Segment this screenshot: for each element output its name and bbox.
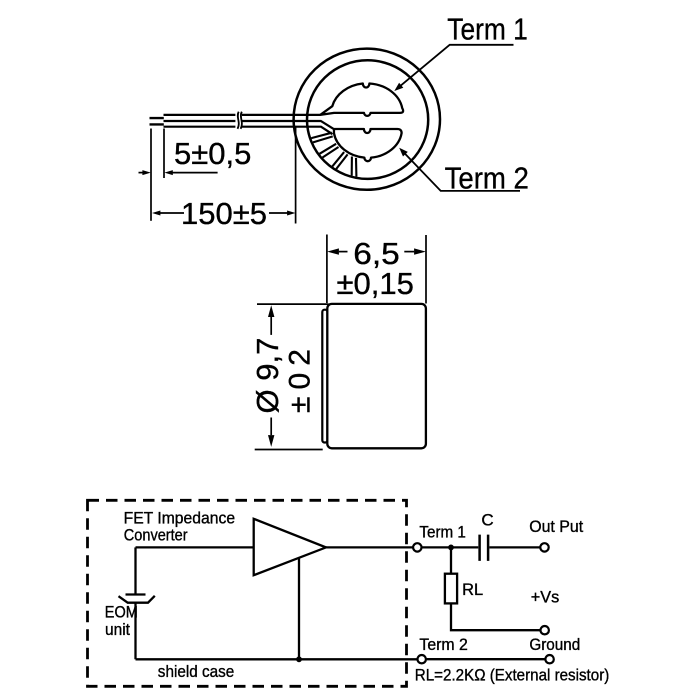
svg-text:5±0,5: 5±0,5 [174, 136, 251, 171]
svg-text:FET Impedance: FET Impedance [124, 510, 236, 528]
svg-text:±0,15: ±0,15 [337, 266, 414, 301]
svg-text:Ø 9,7: Ø 9,7 [250, 338, 285, 414]
svg-text:C: C [481, 510, 493, 529]
svg-text:Term 1: Term 1 [419, 524, 466, 542]
svg-text:Converter: Converter [124, 527, 188, 545]
svg-text:shield case: shield case [158, 663, 235, 681]
svg-text:+Vs: +Vs [531, 588, 560, 606]
svg-text:unit: unit [105, 621, 130, 639]
svg-text:Out Put: Out Put [529, 518, 583, 536]
svg-text:RL=2.2KΩ (External resistor): RL=2.2KΩ (External resistor) [415, 667, 610, 685]
svg-text:Term 2: Term 2 [445, 161, 529, 196]
svg-text:Term 2: Term 2 [419, 636, 468, 654]
svg-text:Term 1: Term 1 [447, 13, 527, 47]
svg-text:RL: RL [462, 581, 483, 599]
svg-text:EOM: EOM [105, 603, 138, 621]
svg-text:150±5: 150±5 [181, 196, 267, 231]
svg-text:±02: ±02 [283, 349, 316, 413]
svg-text:Ground: Ground [529, 636, 580, 654]
